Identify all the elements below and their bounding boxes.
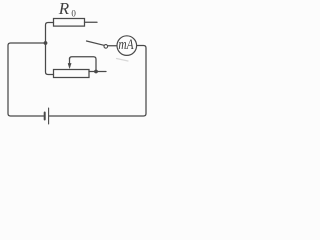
- wire rheostat right lead through node B: [89, 71, 106, 73]
- faint smudge below meter: [117, 59, 129, 62]
- battery B long plate: [48, 108, 50, 124]
- rheostat R box: [54, 70, 90, 78]
- wire switch to milliammeter: [108, 45, 117, 47]
- svg-text:mA: mA: [118, 37, 133, 53]
- switch S pivot circle: [104, 45, 108, 49]
- wire from wiper over to node B: [70, 57, 97, 71]
- battery B short plate: [44, 113, 46, 120]
- node A junction dot: [44, 41, 48, 45]
- wire bottom from battery to right rail: [50, 46, 147, 117]
- node B junction dot: [94, 70, 98, 74]
- resistor R0 box: [54, 19, 85, 27]
- wire from node A up to resistor R0 left lead: [46, 23, 54, 43]
- wire resistor R0 right lead: [85, 21, 98, 23]
- milliammeter mA body circle: [117, 36, 137, 56]
- svg-text:R0: R0: [58, 0, 77, 18]
- wire left rail from node A to battery: [8, 43, 45, 116]
- wire from node A down to rheostat left lead: [46, 44, 54, 75]
- switch S lever: [87, 41, 105, 45]
- rheostat wiper arrow: [69, 58, 71, 65]
